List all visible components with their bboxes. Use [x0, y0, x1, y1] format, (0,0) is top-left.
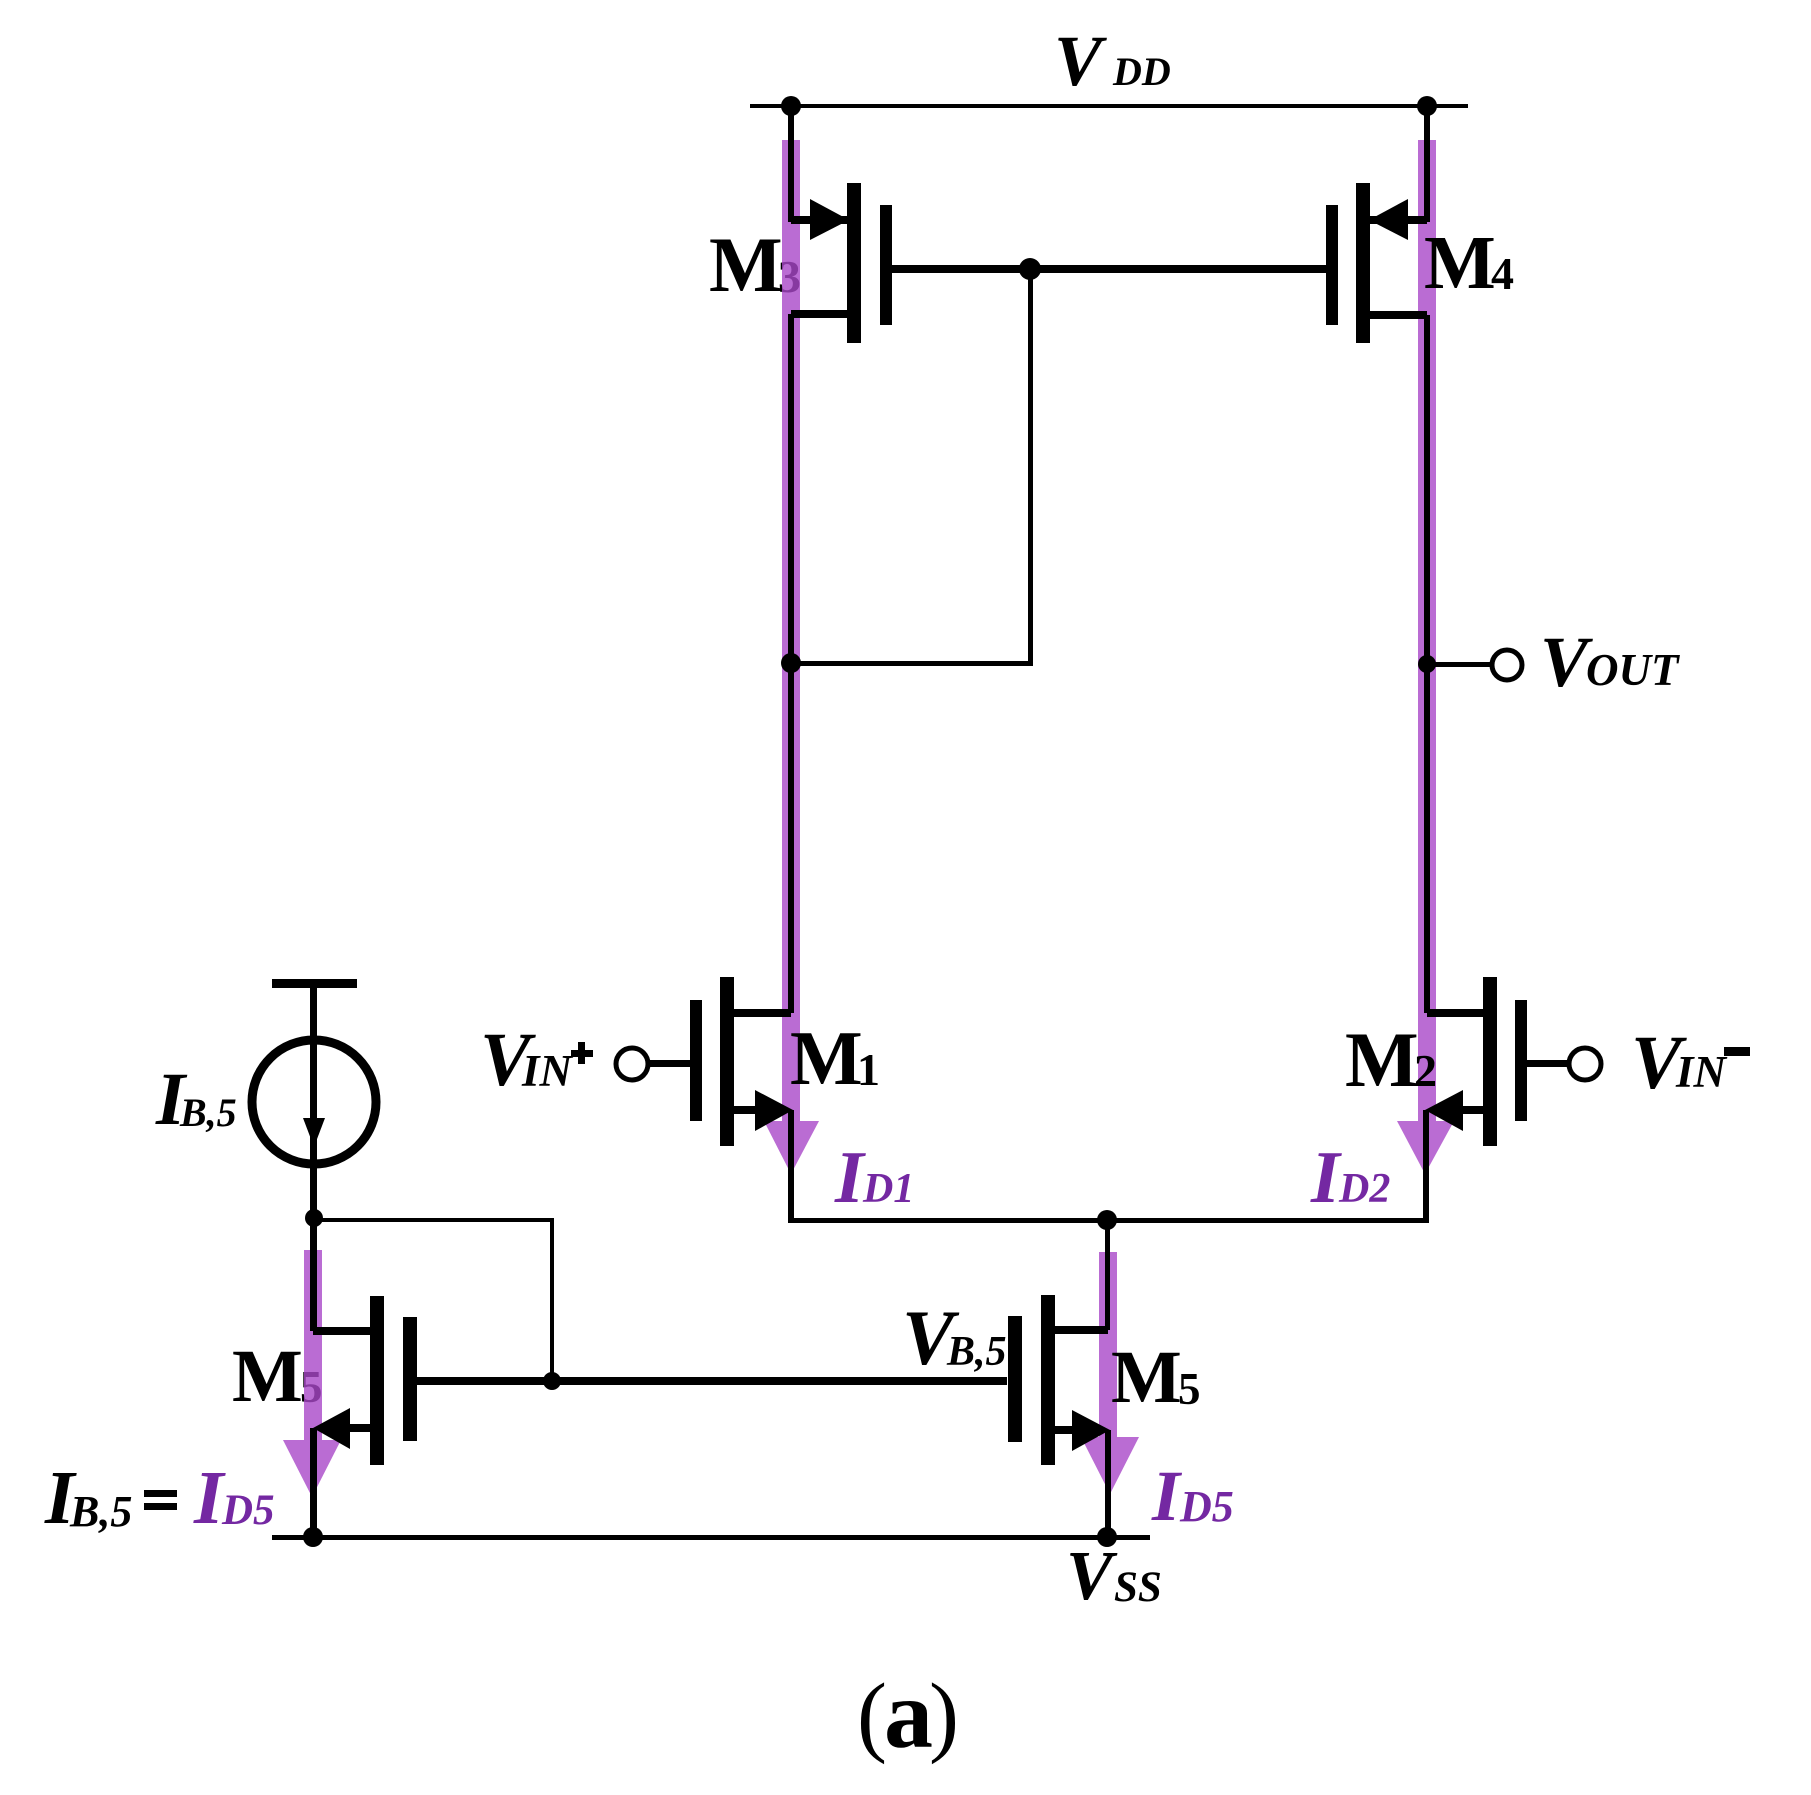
label M5 (left mirror transistor) [232, 1335, 323, 1418]
svg-text:B,5: B,5 [179, 1090, 237, 1135]
wire M3 drain to M1 drain [788, 314, 794, 1013]
power rail VDD [750, 104, 1468, 108]
transistor M5 left [310, 1296, 417, 1537]
junction output node [1418, 655, 1436, 673]
caption (a) [857, 1661, 959, 1769]
label IB5 [155, 1058, 237, 1141]
svg-text:D5: D5 [1179, 1482, 1234, 1531]
junction M3 drain node A [781, 653, 801, 673]
wire gate line M3-M4 [892, 265, 1326, 273]
svg-text:M: M [790, 1015, 863, 1101]
wire M4 drain to M2 drain [1424, 315, 1430, 1013]
svg-text:V: V [1054, 21, 1107, 101]
label M4 [1424, 221, 1514, 305]
junction IB5-M5 gate [305, 1209, 323, 1227]
junction gate line [1019, 258, 1041, 280]
svg-text:M: M [1424, 221, 1496, 305]
junction VDD-M3 [781, 96, 801, 116]
current stripe ID2 (purple) [1397, 140, 1454, 1174]
svg-text:B,5: B,5 [69, 1487, 132, 1536]
current stripe ID5 right (purple) [1081, 1252, 1139, 1494]
svg-text:D1: D1 [862, 1166, 914, 1212]
transistor M2 [1423, 977, 1569, 1223]
label ID5 (right, purple) [1151, 1456, 1234, 1536]
transistor M3 [788, 106, 892, 343]
label ID2 (purple) [1310, 1137, 1390, 1219]
label ID1 (purple) [834, 1137, 914, 1219]
svg-text:B,5: B,5 [946, 1329, 1007, 1375]
junction bias gate line [543, 1372, 561, 1390]
svg-text:5: 5 [1178, 1364, 1201, 1414]
svg-text:IN: IN [1675, 1047, 1728, 1097]
svg-text:SS: SS [1114, 1564, 1162, 1611]
svg-text:OUT: OUT [1586, 645, 1680, 695]
label VIN+ [480, 1018, 593, 1102]
transistor M5 right [1008, 1295, 1111, 1537]
label VB5 [902, 1294, 1007, 1381]
transistor M4 [1326, 106, 1430, 343]
svg-text:DD: DD [1112, 49, 1171, 94]
svg-text:a: a [884, 1661, 933, 1769]
junction VSS-M5 left [303, 1527, 323, 1547]
svg-text:I: I [1310, 1137, 1342, 1219]
junction VDD-M4 [1417, 96, 1437, 116]
svg-text:1: 1 [857, 1044, 880, 1095]
terminal VIN+ [616, 1048, 648, 1080]
junction tail node [1097, 1210, 1117, 1230]
current source IB5 [252, 988, 376, 1331]
svg-text:2: 2 [1414, 1045, 1437, 1096]
label IB5 = ID5 (bottom left) [44, 1456, 275, 1540]
power rail VSS [272, 1535, 1150, 1540]
wire tail to M5 right drain [1105, 1220, 1110, 1330]
wire tail node [791, 1218, 1425, 1223]
terminal VOUT [1427, 650, 1522, 680]
svg-text:I: I [1151, 1456, 1183, 1536]
current stripe ID1 (purple) [764, 140, 819, 1174]
terminal VIN- [1569, 1048, 1601, 1080]
current stripe ID5 left (purple) [283, 1250, 341, 1497]
svg-text:D5: D5 [221, 1487, 275, 1534]
svg-text:M: M [1111, 1336, 1182, 1419]
svg-text:(: ( [857, 1666, 887, 1765]
svg-text:M: M [232, 1335, 303, 1418]
label VSS [1066, 1538, 1162, 1615]
label M5 (right) [1111, 1336, 1201, 1419]
svg-text:M: M [709, 221, 783, 308]
svg-text:M: M [1345, 1016, 1419, 1103]
label VOUT [1540, 622, 1680, 702]
svg-text:V: V [1066, 1538, 1118, 1615]
svg-text:I: I [834, 1137, 866, 1219]
junction VSS-M5 right [1097, 1527, 1117, 1547]
label VIN- [1631, 1021, 1750, 1105]
label M3 [709, 221, 801, 308]
label M1 [790, 1015, 880, 1101]
current source IB5 top bar [272, 979, 357, 988]
transistor M1 [648, 977, 794, 1223]
wire bias connection [314, 1218, 554, 1381]
label M2 [1345, 1016, 1437, 1103]
svg-text:D2: D2 [1338, 1166, 1390, 1212]
svg-text:4: 4 [1491, 248, 1514, 299]
wire diode connection (gate node down to M3 drain) [791, 269, 1033, 666]
svg-text:IN: IN [521, 1046, 574, 1096]
svg-text:): ) [929, 1666, 959, 1765]
label VDD [1054, 21, 1171, 101]
wire gate line M5-M5 [417, 1377, 1007, 1385]
